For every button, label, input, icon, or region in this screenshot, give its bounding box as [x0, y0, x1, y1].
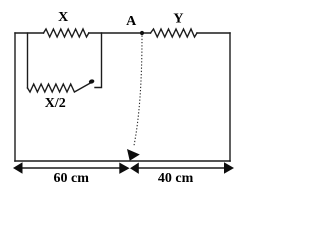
svg-text:Y: Y: [173, 12, 183, 27]
svg-text:X: X: [58, 10, 68, 25]
svg-text:40 cm: 40 cm: [158, 171, 194, 186]
svg-text:X/2: X/2: [45, 96, 66, 111]
svg-text:A: A: [126, 14, 137, 29]
svg-text:60 cm: 60 cm: [54, 171, 90, 186]
